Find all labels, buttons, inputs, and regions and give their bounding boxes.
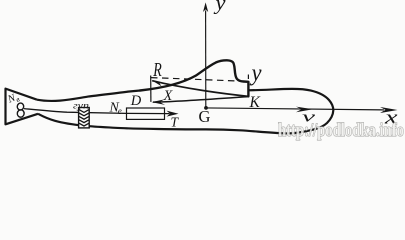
engine box (Д) <box>127 108 165 119</box>
hull deck line left of sail <box>37 91 140 101</box>
svg-text:X: X <box>163 88 174 104</box>
thrust bearing hatched block (гуп) <box>79 108 90 128</box>
svg-text:гуп: гуп <box>73 101 89 111</box>
hull bottom line <box>38 114 313 134</box>
thrust arrow T <box>167 111 179 117</box>
x-axis <box>206 108 384 110</box>
y-axis arrowhead <box>203 2 208 12</box>
svg-text:http://podlodka.info: http://podlodka.info <box>278 120 404 141</box>
G dot (center of gravity) <box>204 106 208 110</box>
y-axis <box>205 11 207 108</box>
conning tower (sail) fairing <box>140 60 248 96</box>
x-axis arrowhead <box>380 107 398 113</box>
resultant force line K to R <box>152 81 248 97</box>
svg-text:R: R <box>153 59 162 81</box>
svg-text:e: e <box>118 106 122 116</box>
svg-text:y: y <box>213 0 225 15</box>
velocity arrowhead v on x-axis <box>296 107 313 113</box>
propeller (figure-8 symbol) <box>16 103 26 118</box>
propeller shaft line <box>24 109 170 114</box>
stern fin outline <box>6 89 39 125</box>
svg-text:y: y <box>250 61 262 87</box>
bow cap and deck line right of sail <box>249 89 334 130</box>
svg-text:D: D <box>130 93 142 109</box>
drag force line K to left (X) <box>153 97 248 103</box>
label Nв (rotated, at stern) <box>6 91 22 107</box>
dashed horizontal line R to above K <box>151 78 248 82</box>
arrowhead at R <box>152 80 164 86</box>
vertical projection line below R <box>150 76 152 102</box>
arrowhead of X <box>152 99 166 105</box>
svg-text:G: G <box>199 107 211 126</box>
paper background <box>0 0 405 150</box>
dashed vertical above step (Y component top) <box>247 75 249 82</box>
svg-text:K: K <box>249 94 261 111</box>
